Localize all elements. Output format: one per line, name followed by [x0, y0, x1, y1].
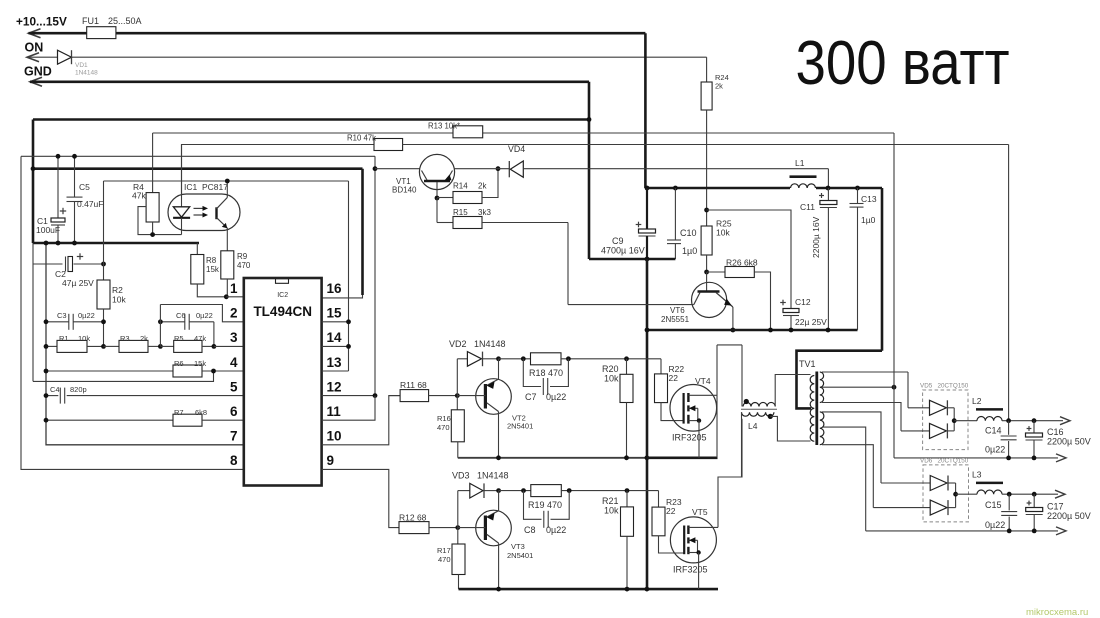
svg-text:VD4: VD4: [508, 144, 525, 154]
transistor VT3 2N5401: [476, 510, 512, 546]
wire +12V rail y188: [645, 187, 790, 190]
svg-text:R21: R21: [602, 496, 619, 506]
svg-text:2200µ 50V: 2200µ 50V: [1047, 437, 1091, 447]
node junction R25 bottom: [704, 270, 709, 275]
node junction R4 bottom: [150, 232, 155, 237]
wire pin12 stub: [322, 395, 375, 397]
node junction VT1 base: [435, 196, 440, 201]
node junction R21 top: [625, 488, 630, 493]
svg-text:47k: 47k: [194, 334, 206, 343]
resistor R9: [221, 251, 234, 279]
node junction C7 left: [521, 356, 526, 361]
svg-text:R26 6k8: R26 6k8: [726, 258, 758, 268]
svg-text:C3: C3: [57, 311, 67, 320]
svg-text:R17: R17: [437, 546, 451, 555]
svg-text:BD140: BD140: [392, 186, 417, 195]
svg-text:C11: C11: [800, 202, 815, 212]
node junction R3 right: [158, 344, 163, 349]
svg-text:R9: R9: [237, 252, 248, 261]
node junction pin12: [373, 393, 378, 398]
svg-text:TL494CN: TL494CN: [253, 304, 312, 319]
svg-text:47µ 25V: 47µ 25V: [62, 278, 94, 288]
diode VD5a: [908, 407, 930, 409]
svg-text:L1: L1: [795, 158, 805, 168]
svg-text:10k: 10k: [78, 334, 90, 343]
svg-text:0.47uF: 0.47uF: [77, 199, 103, 209]
wire below R2: [103, 309, 105, 346]
svg-text:C15: C15: [985, 500, 1002, 510]
node junction VT2 emitter: [496, 455, 501, 460]
wire C6 right vertical: [213, 322, 215, 347]
node junction C6 left: [158, 319, 163, 324]
node junction bus/row330: [645, 328, 650, 333]
svg-text:GND: GND: [24, 65, 52, 79]
svg-text:7: 7: [230, 429, 238, 444]
wire GND vertical drop: [588, 82, 591, 259]
opto LED: [181, 144, 183, 207]
svg-text:R2: R2: [112, 285, 123, 295]
node junction VD5 out: [952, 418, 957, 423]
resistor R25: [706, 210, 708, 226]
opto transistor: [226, 181, 228, 198]
node junction C8 right: [567, 488, 572, 493]
wire thick GND row y259: [589, 258, 675, 261]
svg-text:3: 3: [230, 330, 238, 345]
resistor R3: [104, 345, 120, 347]
svg-text:13: 13: [327, 355, 343, 370]
resistor R15: [436, 198, 438, 223]
wire thick vertical to pin16: [361, 169, 364, 295]
resistor R16: [456, 396, 458, 410]
rectifier VD6 box: [923, 465, 969, 522]
transformer TV1 primary: [810, 376, 814, 442]
node junction rail/C13: [855, 186, 860, 191]
op-amp U-IC2 TL494CN body: [244, 278, 322, 486]
capacitor C5: [74, 156, 76, 197]
capacitor C7: [523, 359, 541, 387]
transformer TV1 secondary upper: [820, 372, 824, 403]
wire LED anode drop: [181, 145, 183, 195]
svg-text:1N4148: 1N4148: [75, 70, 98, 77]
capacitor C14: [1008, 421, 1010, 435]
node junction VT6 emitter GND: [731, 328, 736, 333]
node junction C5 bottom: [72, 241, 77, 246]
node junction R1 left: [44, 344, 49, 349]
svg-text:8: 8: [230, 453, 238, 468]
wire VD5 to L2: [954, 420, 977, 422]
svg-text:820p: 820p: [70, 385, 87, 394]
svg-text:15k: 15k: [194, 359, 206, 368]
svg-text:15k: 15k: [206, 265, 220, 274]
resistor R6: [46, 370, 173, 372]
capacitor C6: [160, 321, 184, 323]
svg-text:VT6: VT6: [670, 306, 685, 315]
arrow output+ A: [1060, 417, 1070, 425]
svg-text:10: 10: [327, 429, 342, 444]
optocoupler IC1 body: [168, 194, 240, 231]
inductor L3: [977, 490, 1002, 494]
svg-text:2k: 2k: [715, 82, 723, 91]
svg-text:VD3 1N4148: VD3 1N4148: [452, 471, 509, 481]
arrow return A: [1056, 454, 1066, 462]
diode VD1: [58, 50, 72, 64]
wire outer thin box left+bottom: [21, 156, 244, 469]
node junction R21 bottom: [625, 587, 630, 592]
diode VD5b: [901, 430, 930, 432]
svg-text:1µ0: 1µ0: [861, 215, 876, 225]
capacitor C2: [33, 263, 63, 265]
svg-text:2200µ 50V: 2200µ 50V: [1047, 511, 1091, 521]
wire L4 upper right to TV1: [775, 375, 810, 407]
node junction pin12-vert/rail168: [373, 166, 378, 171]
wire pin1 stub: [226, 296, 244, 298]
node junction rail/C11: [826, 186, 831, 191]
svg-text:C6: C6: [176, 311, 186, 320]
svg-text:2N5401: 2N5401: [507, 422, 533, 431]
wire pin11 stub: [322, 396, 375, 421]
wire L4 lower right to TV1: [770, 416, 810, 441]
wire thick GND row y330: [647, 329, 858, 332]
diode VD4: [508, 161, 510, 177]
diode VD3: [457, 491, 459, 528]
wire sec-upper bottom tap: [822, 403, 901, 431]
node junction C7 right: [566, 356, 571, 361]
transistor Q-VT4 IRF3205: [670, 385, 717, 432]
wire thick source row A: [647, 456, 718, 459]
wire R4 top vertical: [152, 133, 154, 193]
svg-text:R20: R20: [602, 364, 619, 374]
node junction R1 right: [101, 344, 106, 349]
node junction R5 right: [212, 344, 217, 349]
wire sec-lower top tap: [822, 412, 881, 483]
svg-text:C5: C5: [79, 182, 90, 192]
wire L4 core separator: [741, 408, 777, 410]
svg-text:10k: 10k: [716, 228, 730, 238]
wire thick rail y168: [32, 167, 363, 170]
node junction C3 left: [44, 319, 49, 324]
node junction R20 bottom: [624, 455, 629, 460]
node junction C14 bottom: [1006, 456, 1011, 461]
diode VD6a: [881, 482, 930, 484]
svg-text:TV1: TV1: [799, 359, 816, 369]
svg-text:R11 68: R11 68: [400, 380, 427, 390]
svg-text:VD5 20CTQ150: VD5 20CTQ150: [920, 383, 969, 390]
wire VT1 to VD4: [455, 168, 510, 170]
node junction C17 top: [1032, 492, 1037, 497]
svg-text:11: 11: [327, 404, 342, 419]
wire pin14 stub: [322, 345, 349, 347]
node junction C5 top: [72, 154, 77, 159]
node junction VT2 base: [455, 393, 460, 398]
wire sec-lower bottom tap: [822, 445, 873, 508]
node junction opto collector: [225, 179, 230, 184]
svg-text:25...50A: 25...50A: [108, 16, 142, 26]
svg-text:300 ватт: 300 ватт: [796, 29, 1010, 98]
wire VT4 drain route: [716, 345, 718, 457]
node junction VD3 right: [496, 488, 501, 493]
node junction pin1: [224, 294, 229, 299]
wire R2 node vertical: [103, 181, 105, 280]
wire pin2 loop: [160, 305, 243, 322]
capacitor C1: [57, 156, 59, 218]
svg-text:12: 12: [327, 379, 342, 394]
node junction C2 right: [101, 262, 106, 267]
svg-text:VD2 1N4148: VD2 1N4148: [449, 339, 506, 349]
rectifier VD5 box: [923, 390, 968, 450]
svg-text:R12 68: R12 68: [399, 513, 427, 523]
node junction C12 bottom: [789, 328, 794, 333]
node junction C15 top: [1007, 492, 1012, 497]
resistor R14: [437, 197, 453, 199]
svg-text:R8: R8: [206, 256, 217, 265]
wire thick TV1 feed: [797, 351, 883, 409]
wire pin12 feed vertical: [374, 156, 376, 395]
resistor R1: [46, 345, 57, 347]
resistor R12: [399, 522, 429, 534]
wire L4 lower left drop: [741, 412, 743, 477]
node junction C16 bottom: [1032, 456, 1037, 461]
wire box top thick rail: [33, 118, 589, 121]
resistor R7: [46, 419, 173, 421]
capacitor C12: [783, 309, 799, 313]
svg-text:100uF: 100uF: [36, 225, 60, 235]
resistor R17: [457, 528, 459, 544]
wire pin3 stub: [214, 345, 244, 347]
wire pin13 stub: [322, 370, 349, 372]
node junction C17 bottom: [1032, 529, 1037, 534]
node junction R6 right: [211, 369, 216, 374]
wire C6 left vertical: [159, 305, 161, 347]
svg-text:0µ22: 0µ22: [985, 520, 1005, 530]
node junction R20 top: [624, 356, 629, 361]
svg-text:VT5: VT5: [692, 507, 708, 517]
svg-text:0µ22: 0µ22: [546, 525, 566, 535]
svg-text:6: 6: [230, 404, 238, 419]
resistor R11: [389, 395, 400, 397]
wire R10 feedback vertical: [1008, 145, 1010, 421]
node junction rail/C10: [673, 186, 678, 191]
svg-text:0µ22: 0µ22: [546, 392, 566, 402]
node junction C11 bottom: [826, 328, 831, 333]
svg-text:2k: 2k: [478, 182, 487, 191]
resistor R23: [658, 491, 660, 508]
inductor L1: [791, 184, 816, 188]
wire emitter GND row A: [458, 457, 647, 459]
svg-text:C16: C16: [1047, 427, 1064, 437]
svg-text:C9: C9: [612, 236, 624, 246]
svg-text:R3: R3: [120, 334, 130, 343]
wire thick bottom GND row: [459, 588, 719, 591]
svg-text:4: 4: [230, 355, 238, 370]
fuse FU1: [87, 27, 116, 39]
svg-text:6k8: 6k8: [195, 408, 207, 417]
capacitor C8: [524, 491, 542, 520]
wire opto collector rail y181: [104, 180, 349, 182]
svg-text:mikrocxema.ru: mikrocxema.ru: [1026, 607, 1088, 618]
svg-text:VD6 20CTQ150: VD6 20CTQ150: [920, 458, 969, 465]
node junction R7 left: [44, 418, 49, 423]
svg-text:R16: R16: [437, 414, 451, 423]
node junction pin15: [346, 319, 351, 324]
node junction C16 top: [1032, 418, 1037, 423]
node junction rail168 left: [31, 166, 36, 171]
wire output return row B: [866, 530, 1058, 532]
svg-text:15: 15: [327, 306, 343, 321]
wire L2 to output: [1002, 420, 1063, 422]
svg-text:22: 22: [669, 373, 679, 383]
capacitor C17: [1033, 494, 1035, 507]
svg-text:14: 14: [327, 330, 343, 345]
svg-text:R15: R15: [453, 208, 468, 217]
transistor VT6 2N5551: [692, 282, 727, 317]
resistor R10: [182, 144, 375, 146]
svg-text:C10: C10: [680, 228, 697, 238]
node junction C15 bottom: [1007, 529, 1012, 534]
arrow output+ B: [1055, 490, 1065, 498]
inductor L4 lower winding: [742, 412, 774, 416]
svg-text:C12: C12: [795, 297, 811, 307]
svg-text:R1: R1: [59, 334, 69, 343]
node junction VD6 out: [953, 492, 958, 497]
svg-text:10k: 10k: [604, 506, 619, 516]
transformer TV1 core: [815, 372, 818, 446]
svg-text:C13: C13: [861, 194, 877, 204]
transistor VT1 BD140: [419, 154, 454, 189]
svg-text:22µ 25V: 22µ 25V: [795, 317, 827, 327]
wire thick GND bus x647: [646, 259, 649, 589]
svg-text:IRF3205: IRF3205: [672, 433, 707, 443]
svg-text:L4: L4: [748, 421, 758, 431]
node junction VD4 left: [496, 166, 501, 171]
wire pin15 stub: [322, 321, 349, 323]
node L4 lower phase dot: [768, 414, 773, 419]
svg-text:R18 470: R18 470: [529, 368, 563, 378]
node junction rail46 top: [44, 241, 49, 246]
capacitor C13: [857, 188, 859, 204]
svg-text:L3: L3: [972, 470, 982, 480]
svg-text:0µ22: 0µ22: [78, 311, 95, 320]
node junction rail/C9: [645, 186, 650, 191]
svg-text:2N5551: 2N5551: [661, 315, 690, 324]
wire top inner rail y156: [21, 155, 375, 157]
node junction C1 top: [56, 154, 61, 159]
resistor R8: [196, 243, 198, 255]
svg-text:IC2: IC2: [277, 292, 288, 299]
wire +12V input rail with arrow: [29, 29, 41, 38]
wire VD5 cathode join: [953, 408, 955, 431]
svg-text:R7: R7: [174, 408, 184, 417]
wire VD6 cathode join: [955, 483, 957, 508]
svg-text:47k: 47k: [132, 191, 146, 201]
svg-text:C14: C14: [985, 426, 1002, 436]
node junction VD2 right: [496, 356, 501, 361]
svg-text:2k: 2k: [140, 334, 148, 343]
resistor R18: [499, 358, 531, 360]
svg-text:10k: 10k: [112, 295, 126, 305]
svg-text:ON: ON: [25, 41, 44, 55]
resistor R19: [499, 490, 531, 492]
svg-text:5: 5: [230, 379, 238, 394]
diode VD6b: [873, 507, 930, 509]
node junction C4 left: [44, 393, 49, 398]
svg-text:L2: L2: [972, 396, 982, 406]
svg-text:16: 16: [327, 281, 343, 296]
node L4 upper phase dot: [744, 399, 749, 404]
node junction R26 bottom: [768, 328, 773, 333]
svg-text:R14: R14: [453, 182, 468, 191]
svg-text:0µ22: 0µ22: [196, 311, 213, 320]
node junction pin14: [346, 344, 351, 349]
svg-text:2N5401: 2N5401: [507, 551, 533, 560]
svg-text:R5: R5: [174, 334, 184, 343]
svg-text:22: 22: [666, 506, 676, 516]
opto light arrows: [194, 207, 204, 209]
wire VT5 drain route: [718, 419, 742, 528]
transistor Q-VT5 IRF3205: [670, 517, 716, 563]
resistor R26: [707, 271, 725, 273]
wire sec-upper mid tap: [822, 386, 894, 388]
svg-text:VD1: VD1: [75, 62, 88, 69]
svg-text:10k: 10k: [604, 374, 619, 384]
wire VT1 left lead: [375, 168, 420, 170]
svg-text:4700µ 16V: 4700µ 16V: [601, 246, 645, 256]
svg-text:0µ22: 0µ22: [985, 445, 1005, 455]
svg-text:R13 10k*: R13 10k*: [428, 122, 460, 131]
node junction busA: [645, 455, 650, 460]
svg-text:FU1: FU1: [82, 16, 99, 26]
wire VT6 collector to R15: [567, 223, 569, 305]
node junction busB: [645, 587, 650, 592]
wire VD4 row to rail: [523, 168, 828, 170]
inductor L2: [977, 417, 1002, 421]
node junction C8 left: [521, 488, 526, 493]
node junction VT3 base: [455, 525, 460, 530]
node junction C9 bottom: [645, 257, 650, 262]
inductor L4 upper winding: [743, 402, 775, 406]
svg-text:+10...15V: +10...15V: [16, 15, 67, 29]
resistor R22: [660, 359, 662, 374]
node junction feedback mid tap: [892, 385, 897, 390]
wire C12 branch: [707, 210, 791, 309]
svg-text:R6: R6: [174, 359, 184, 368]
node junction R24/C12 branch: [704, 208, 709, 213]
resistor R24: [706, 57, 708, 82]
node junction GND/box-top: [587, 117, 592, 122]
wire output return row A: [894, 457, 1058, 459]
wire thick left vertical: [32, 120, 35, 244]
resistor R2: [97, 280, 110, 309]
wire vertical to pins 15-14-13: [348, 181, 350, 371]
wire pin9 stub: [322, 469, 399, 527]
arrow return B: [1056, 527, 1066, 535]
wire thick GND row y243: [33, 242, 199, 245]
capacitor C3: [46, 321, 69, 323]
svg-text:470: 470: [437, 423, 450, 432]
wire ON line with arrow: [27, 53, 39, 62]
svg-text:R19 470: R19 470: [528, 500, 562, 510]
capacitor C16: [1033, 421, 1035, 433]
svg-text:C4: C4: [50, 385, 60, 394]
resistor R4: [146, 193, 159, 222]
svg-text:470: 470: [438, 555, 451, 564]
wire +12V vertical drop: [644, 33, 647, 188]
resistor R13: [453, 126, 483, 138]
resistor R5: [160, 345, 173, 347]
wire VD6 to L3: [956, 493, 977, 495]
node junction C3 right: [101, 319, 106, 324]
svg-text:C7: C7: [525, 392, 537, 402]
node junction C14 top: [1006, 418, 1011, 423]
